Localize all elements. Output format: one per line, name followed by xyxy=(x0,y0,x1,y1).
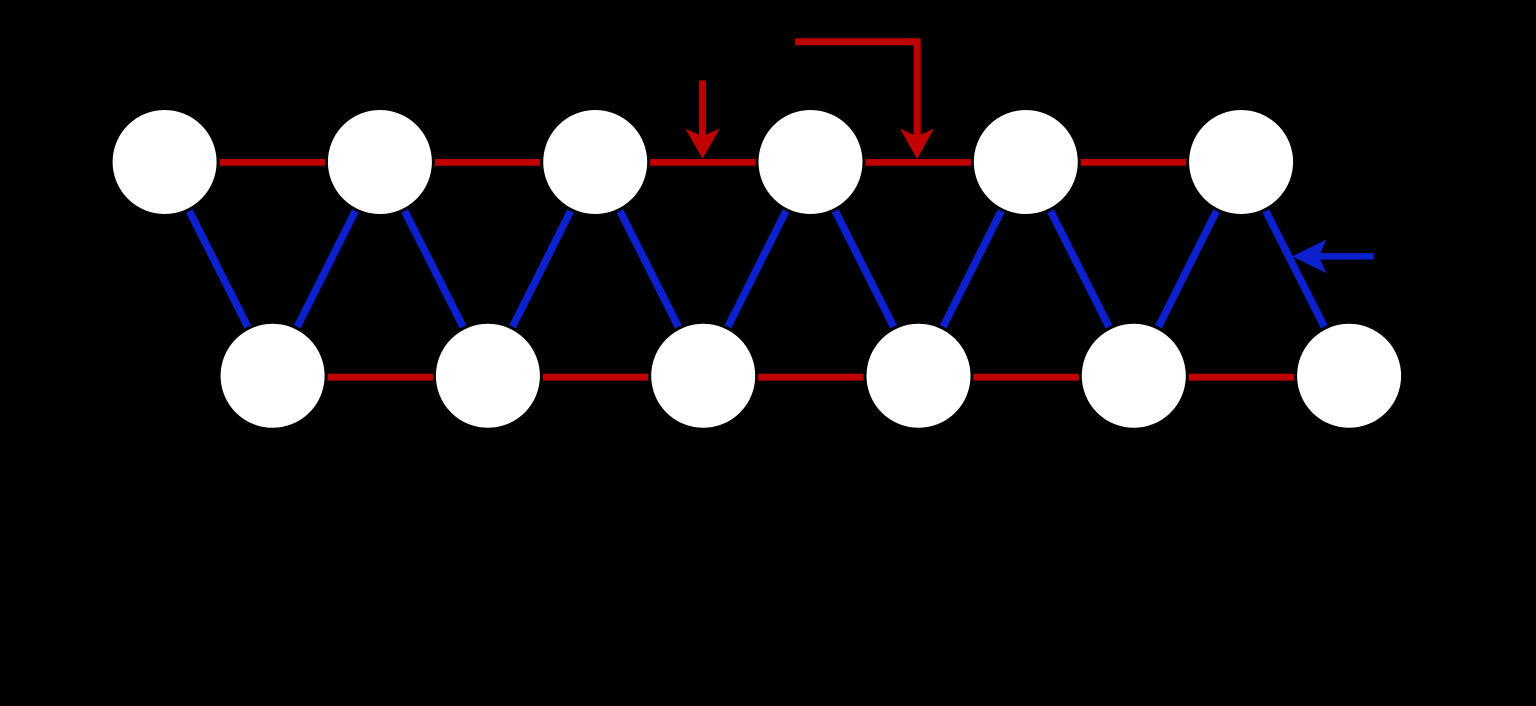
wire red bond bottom1-bottom2 xyxy=(273,374,488,381)
wire: blue J2 zigzag bonds (top_i - bottom_i - top_i+1) xyxy=(165,162,1350,376)
wire blue bond top5-bottom5 xyxy=(1026,162,1134,376)
wire blue bond bottom3-top4 xyxy=(703,162,810,376)
node top2 xyxy=(326,109,433,216)
wire blue bond top6-bottom6 xyxy=(1241,162,1349,376)
node bottom5 xyxy=(1080,322,1187,429)
wire red bond top2-top3 xyxy=(380,159,595,166)
node bottom6 xyxy=(1296,322,1403,429)
node: lattice site circles (white, black outline) xyxy=(111,109,1403,430)
wire red bond top1-top2 xyxy=(165,159,380,166)
wire blue bond top2-bottom2 xyxy=(380,162,488,376)
wire blue bond bottom2-top3 xyxy=(488,162,595,376)
wire red bond bottom4-bottom5 xyxy=(919,374,1134,381)
node bottom1 xyxy=(219,322,326,429)
wire blue bond top3-bottom3 xyxy=(595,162,703,376)
node top4 xyxy=(757,109,864,216)
node bottom3 xyxy=(650,322,757,429)
node bottom2 xyxy=(434,322,541,429)
wire red bond bottom5-bottom6 xyxy=(1134,374,1349,381)
wire red bond top5-top6 xyxy=(1026,159,1241,166)
wire blue bond top4-bottom4 xyxy=(811,162,919,376)
node bottom4 xyxy=(865,322,972,429)
red elbow arrow pointing down at top4-top5 bond xyxy=(795,38,934,159)
node top3 xyxy=(542,109,649,216)
wire red bond top4-top5 xyxy=(811,159,1026,166)
wire: red J1 bonds along each row xyxy=(165,162,1350,377)
red straight arrow pointing down at top3-top4 bond xyxy=(685,81,719,159)
wire blue bond bottom5-top6 xyxy=(1134,162,1241,376)
wire red bond top3-top4 xyxy=(595,159,810,166)
wire blue bond bottom1-top2 xyxy=(273,162,380,376)
wire blue bond top1-bottom1 xyxy=(165,162,273,376)
wire red bond bottom3-bottom4 xyxy=(703,374,918,381)
node top5 xyxy=(972,109,1079,216)
wire red bond bottom2-bottom3 xyxy=(488,374,703,381)
node top1 xyxy=(111,109,218,216)
blue arrow pointing left at top6-bottom6 bond xyxy=(1292,240,1374,274)
node top6 xyxy=(1188,109,1295,216)
wire blue bond bottom4-top5 xyxy=(919,162,1026,376)
